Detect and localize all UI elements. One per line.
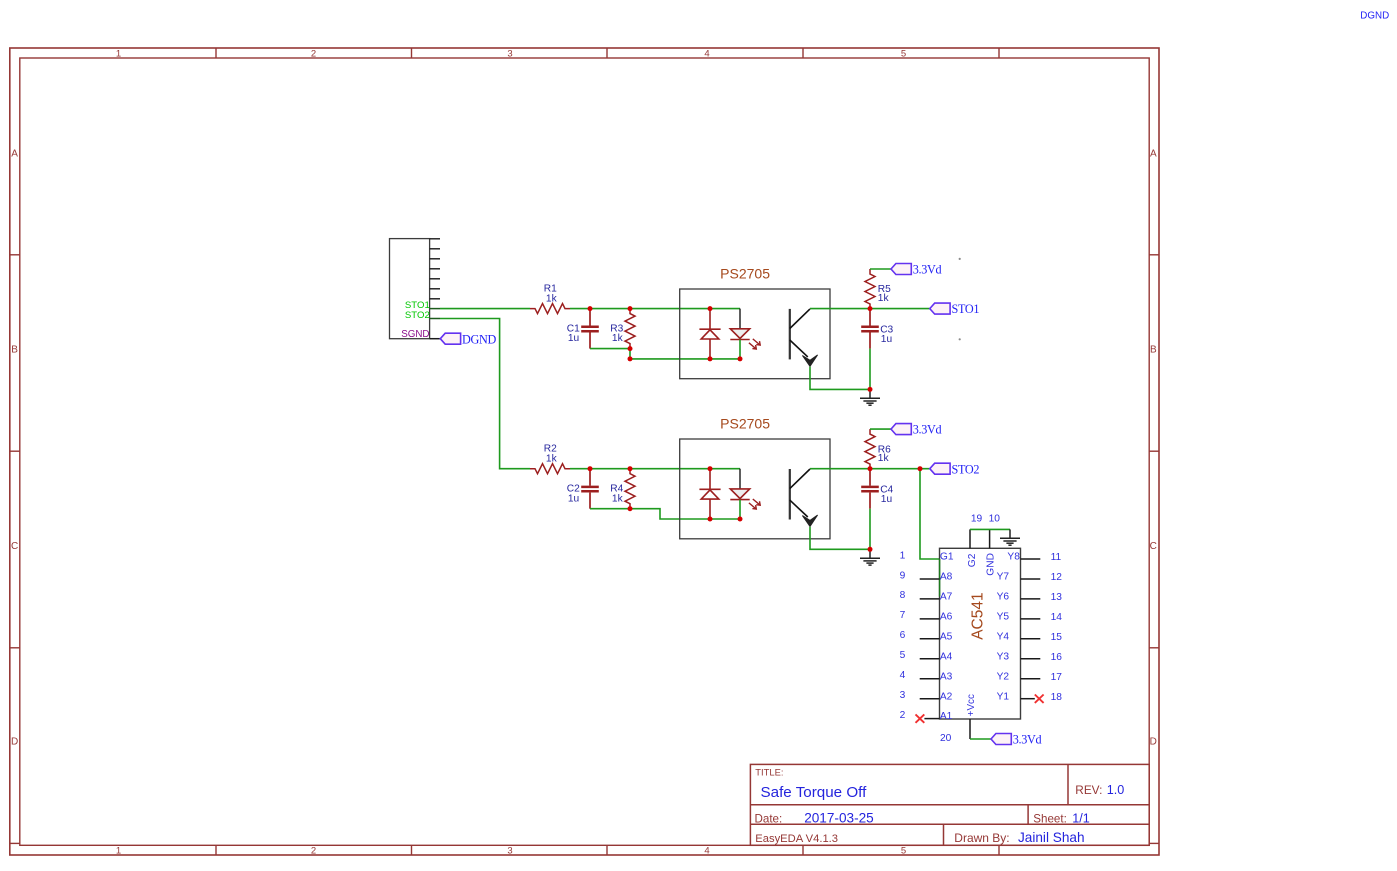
svg-text:Y6: Y6 (997, 592, 1010, 603)
svg-text:B: B (11, 345, 18, 356)
svg-text:3: 3 (507, 49, 512, 60)
ground (circuit 1) (860, 389, 880, 405)
svg-text:DGND: DGND (1360, 11, 1389, 22)
U3 right pin 16 (Y3) (997, 651, 1063, 663)
svg-text:4: 4 (704, 49, 709, 60)
svg-text:1k: 1k (878, 293, 890, 304)
LED inside U1 (730, 309, 760, 359)
svg-text:STO2: STO2 (952, 462, 980, 476)
net flag STO1 (930, 302, 980, 316)
svg-text:15: 15 (1051, 632, 1063, 643)
wire STO2 branch to U3 pin G1 (920, 469, 940, 559)
IC U3 AC541 body (940, 548, 1021, 719)
wire R3 bottom jog to diodes (630, 349, 740, 359)
svg-text:3.3Vd: 3.3Vd (913, 423, 942, 437)
svg-text:+Vcc: +Vcc (966, 694, 977, 716)
junction dots circuit 1 (588, 306, 873, 392)
diode D1 (protection, inside U1) (699, 309, 720, 359)
svg-text:2: 2 (311, 49, 316, 60)
svg-text:4: 4 (900, 670, 906, 681)
svg-text:Y3: Y3 (997, 651, 1010, 662)
svg-text:A7: A7 (940, 592, 953, 603)
optocoupler U1 box PS2705 (680, 266, 830, 379)
svg-text:3: 3 (900, 690, 906, 701)
svg-text:A4: A4 (940, 651, 953, 662)
svg-text:13: 13 (1051, 592, 1063, 603)
svg-text:1k: 1k (546, 294, 558, 305)
resistor R4 (610, 469, 635, 509)
wire STO1: R1 to optocoupler (570, 308, 740, 310)
connector pin STO2 (405, 310, 440, 321)
wire G2/GND to ground (970, 528, 1010, 530)
wire C1 bottom to R3 bottom (590, 348, 630, 350)
svg-text:AC541: AC541 (969, 592, 986, 639)
svg-text:7: 7 (900, 610, 906, 621)
svg-text:1.0: 1.0 (1107, 783, 1125, 797)
svg-text:A2: A2 (940, 691, 953, 702)
svg-text:D: D (1150, 737, 1157, 748)
svg-text:A3: A3 (940, 671, 953, 682)
svg-text:2: 2 (900, 710, 906, 721)
power flag 3.3Vd (U3) (991, 733, 1042, 747)
svg-text:3.3Vd: 3.3Vd (913, 263, 942, 277)
svg-text:Date:: Date: (755, 812, 783, 825)
U3 top pin 10 (GND) (986, 514, 1001, 576)
svg-text:A6: A6 (940, 612, 953, 623)
svg-text:Sheet:: Sheet: (1033, 812, 1067, 825)
U3 right pin 14 (Y5) (997, 612, 1063, 624)
svg-text:A: A (1150, 148, 1157, 159)
svg-text:STO2: STO2 (405, 310, 430, 321)
svg-text:TITLE:: TITLE: (755, 767, 783, 778)
svg-text:14: 14 (1051, 612, 1063, 623)
svg-text:A: A (11, 148, 18, 159)
svg-text:1k: 1k (546, 454, 558, 465)
svg-text:1: 1 (116, 845, 121, 856)
U3 left pin 9 (A8) (900, 570, 953, 582)
svg-text:A8: A8 (940, 572, 953, 583)
wire +Vcc to 3.3Vd flag (970, 738, 991, 740)
svg-text:1u: 1u (881, 494, 892, 505)
svg-text:G2: G2 (967, 553, 978, 567)
wire collector to STO2 flag (810, 468, 930, 470)
U3 top pin 19 (G2) (967, 514, 982, 568)
capacitor C3 (861, 309, 893, 349)
svg-text:Y7: Y7 (997, 572, 1010, 583)
wire emitter2 to ground node (810, 527, 870, 550)
svg-text:5: 5 (901, 845, 906, 856)
U3 left pin 6 (A5) (900, 630, 953, 642)
svg-text:EasyEDA V4.1.3: EasyEDA V4.1.3 (755, 833, 838, 845)
svg-text:1/1: 1/1 (1072, 812, 1090, 826)
svg-text:PS2705: PS2705 (720, 415, 770, 431)
wire C2 bottom to R4 bottom (590, 508, 630, 510)
svg-text:2: 2 (311, 845, 316, 856)
U3 left pin 4 (A3) (900, 670, 953, 682)
svg-text:Drawn By:: Drawn By: (954, 831, 1009, 845)
svg-text:A5: A5 (940, 631, 953, 642)
U3 left pin 7 (A6) (900, 610, 953, 622)
svg-text:STO1: STO1 (952, 302, 980, 316)
U3 right pin 15 (Y4) (997, 631, 1063, 643)
IC U3 name AC541 (969, 592, 986, 639)
svg-text:1k: 1k (612, 333, 624, 344)
U3 right pin 13 (Y6) (997, 592, 1063, 604)
U3 right pin 18 (Y1) (997, 691, 1063, 703)
stray dot b (959, 338, 961, 340)
connector pin STO1 (405, 300, 440, 311)
svg-text:SGND: SGND (401, 329, 429, 340)
wire R4 bottom jog to diodes (630, 509, 740, 519)
svg-text:11: 11 (1051, 552, 1062, 563)
capacitor C1 (567, 309, 599, 349)
capacitor C2 (567, 469, 599, 509)
svg-text:C: C (11, 541, 18, 552)
resistor R1 (530, 284, 570, 314)
svg-text:5: 5 (900, 650, 906, 661)
optocoupler U2 box PS2705 (680, 415, 830, 538)
svg-text:D: D (11, 737, 18, 748)
svg-text:3: 3 (507, 845, 512, 856)
connector J1 (390, 239, 430, 339)
net name DGND (top right) (1360, 11, 1389, 22)
svg-text:C: C (1150, 541, 1157, 552)
U3 left pin 2 (A1) (900, 710, 953, 723)
wire C3 bottom to ground node (869, 349, 871, 390)
junction dots circuit 2 (588, 466, 923, 552)
svg-text:Y4: Y4 (997, 631, 1010, 642)
svg-text:12: 12 (1051, 572, 1063, 583)
LED inside U2 (730, 469, 760, 519)
wire collector to STO1 flag (810, 308, 930, 310)
svg-text:1k: 1k (878, 453, 890, 464)
svg-text:G1: G1 (940, 552, 954, 563)
U3 left pin 3 (A2) (900, 690, 953, 702)
wire STO2: R2 to optocoupler (570, 468, 740, 470)
svg-text:Y1: Y1 (997, 691, 1010, 702)
svg-text:20: 20 (940, 733, 952, 744)
svg-text:Y2: Y2 (997, 671, 1010, 682)
svg-text:19: 19 (971, 514, 983, 525)
svg-text:3.3Vd: 3.3Vd (1013, 733, 1042, 747)
power flag DGND (440, 332, 496, 346)
svg-text:6: 6 (900, 630, 906, 641)
U3 bottom pin 20 (+Vcc) (940, 694, 977, 744)
U3 left pin 1 (G1) (900, 550, 954, 562)
wire STO2: connector to R2 (440, 319, 530, 469)
svg-text:Safe Torque Off: Safe Torque Off (761, 784, 868, 801)
wire C4 bottom to ground node (869, 509, 871, 550)
wire overlay on U3 left edge (net STO2 to G1) (939, 559, 941, 597)
resistor R6 (865, 429, 891, 469)
wire R5 to 3.3Vd flag (870, 268, 891, 270)
svg-text:1u: 1u (568, 333, 579, 344)
svg-text:Y5: Y5 (997, 612, 1010, 623)
svg-text:REV:: REV: (1075, 783, 1102, 797)
svg-text:DGND: DGND (462, 332, 497, 346)
svg-text:2017-03-25: 2017-03-25 (804, 810, 874, 825)
svg-text:Y8: Y8 (1007, 552, 1020, 563)
power flag 3.3Vd (R6) (891, 423, 942, 437)
phototransistor Q1 inside U1 (790, 309, 818, 367)
svg-text:1: 1 (900, 550, 906, 561)
svg-text:1: 1 (116, 49, 121, 60)
svg-text:PS2705: PS2705 (720, 266, 770, 282)
resistor R5 (865, 269, 891, 309)
svg-text:18: 18 (1051, 692, 1063, 703)
wire emitter to ground node (810, 367, 870, 390)
svg-text:1k: 1k (612, 493, 624, 504)
ground (U3 top) (1000, 529, 1020, 545)
diode D2 (protection, inside U2) (699, 469, 720, 519)
U3 left pin 8 (A7) (900, 590, 953, 602)
svg-text:17: 17 (1051, 672, 1063, 683)
U3 right pin 12 (Y7) (997, 572, 1063, 584)
U3 left pin 5 (A4) (900, 650, 953, 662)
capacitor C4 (861, 469, 893, 509)
svg-text:Jainil Shah: Jainil Shah (1018, 830, 1085, 845)
svg-text:1u: 1u (881, 334, 892, 345)
wire R6 to 3.3Vd flag (870, 428, 891, 430)
svg-text:1u: 1u (568, 493, 579, 504)
phototransistor Q2 inside U2 (790, 469, 818, 527)
resistor R2 (530, 444, 570, 474)
wire STO1: connector to R1 (440, 308, 530, 310)
power flag 3.3Vd (R5) (891, 263, 942, 277)
svg-text:A1: A1 (940, 711, 953, 722)
svg-text:B: B (1150, 345, 1157, 356)
svg-text:10: 10 (989, 514, 1001, 525)
resistor R3 (610, 309, 635, 349)
ground (circuit 2) (860, 549, 880, 565)
svg-text:9: 9 (900, 570, 906, 581)
svg-text:16: 16 (1051, 652, 1063, 663)
svg-text:GND: GND (986, 553, 997, 576)
stray dot a (959, 258, 961, 260)
svg-text:5: 5 (901, 49, 906, 60)
U3 right pin 11 (Y8) (1007, 552, 1061, 564)
svg-text:4: 4 (704, 845, 709, 856)
svg-text:8: 8 (900, 590, 906, 601)
connector pin SGND (401, 329, 440, 340)
U3 right pin 17 (Y2) (997, 671, 1063, 683)
connector J1 unconnected pins (430, 239, 440, 299)
net flag STO2 (930, 462, 980, 476)
